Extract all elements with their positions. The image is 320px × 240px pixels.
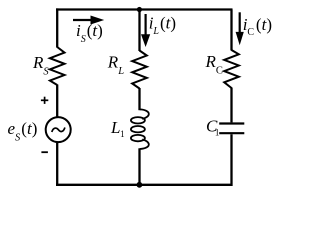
inductor L1 loop 3	[131, 135, 145, 141]
inductor L1 loop 1	[131, 117, 145, 123]
wire right branch upper	[230, 10, 232, 51]
svg-text:RS: RS	[32, 53, 49, 78]
capacitor C1 plate top	[219, 122, 244, 124]
wire bottom rail	[56, 184, 233, 186]
resistor RL	[132, 51, 147, 89]
svg-text:iC(t): iC(t)	[243, 15, 272, 38]
svg-text:iS(t): iS(t)	[76, 21, 103, 45]
svg-text:RC: RC	[205, 52, 223, 77]
wire left branch upper	[56, 8, 58, 47]
svg-text:C1: C1	[206, 116, 219, 137]
source U1 circle	[46, 117, 71, 142]
svg-text:L1: L1	[110, 118, 125, 139]
current arrow iS	[73, 19, 92, 21]
wire left branch lower	[56, 142, 58, 186]
inductor L1 loop 2	[131, 126, 145, 132]
wire middle branch mid	[138, 88, 140, 110]
label minus	[41, 151, 48, 153]
resistor RS	[50, 47, 65, 85]
wire left branch middle	[56, 85, 58, 118]
inductor L1 loop hook top	[140, 109, 149, 119]
node bottom junction	[137, 182, 143, 188]
node top junction	[137, 7, 142, 12]
wire middle branch lower	[138, 148, 140, 186]
wire right branch mid	[230, 88, 232, 123]
wire middle branch upper	[138, 10, 140, 52]
wire right branch lower	[230, 134, 232, 186]
resistor RC	[224, 50, 239, 88]
svg-text:RL: RL	[107, 53, 124, 78]
capacitor C1 plate bottom	[219, 132, 244, 134]
source sine symbol	[52, 128, 65, 133]
inductor L1 loop hook bottom	[140, 140, 149, 150]
svg-text:iL(t): iL(t)	[149, 14, 176, 38]
current arrow iL	[145, 14, 147, 36]
svg-text:eS(t): eS(t)	[8, 119, 38, 144]
label plus	[41, 99, 48, 101]
current arrow iC	[239, 12, 241, 33]
wire top rail	[56, 8, 233, 10]
